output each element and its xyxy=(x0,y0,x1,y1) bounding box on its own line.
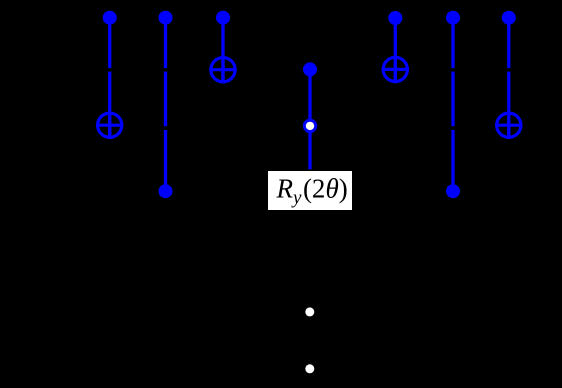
svg-text:Ry(2θ): Ry(2θ) xyxy=(276,174,348,209)
control dot col2 top xyxy=(159,11,173,25)
CNOT target col5 xyxy=(382,56,409,83)
wire col2 middle segment xyxy=(164,72,167,127)
control dot col2 bottom xyxy=(159,184,173,198)
wire col6 middle segment xyxy=(451,72,454,127)
control dot col1 top xyxy=(103,11,117,25)
wire col2 upper segment xyxy=(164,18,167,68)
wire col7 lower segment xyxy=(507,72,510,139)
wire col3 xyxy=(221,18,224,84)
ellipsis dot upper xyxy=(305,307,314,316)
CNOT target col3 xyxy=(209,56,236,83)
control dot col5 top xyxy=(388,11,402,25)
gate box Ry(2theta) xyxy=(268,171,352,210)
wire col1 upper segment xyxy=(108,18,111,68)
wire col4 xyxy=(308,69,311,169)
wire col6 lower segment xyxy=(451,130,454,191)
CNOT target col1 xyxy=(96,112,123,139)
control dot col4 xyxy=(303,62,317,76)
wire col2 lower segment xyxy=(164,130,167,191)
wire col7 upper segment xyxy=(507,18,510,68)
control dot col7 top xyxy=(502,11,516,25)
wire col5 xyxy=(394,18,397,83)
control dot col3 top xyxy=(216,11,230,25)
ellipsis dot lower xyxy=(305,364,314,373)
CNOT target col7 xyxy=(495,112,522,139)
open control (anti-control) col4 xyxy=(304,120,315,131)
control dot col6 top xyxy=(446,11,460,25)
control dot col6 bottom xyxy=(446,184,460,198)
wire col1 lower segment xyxy=(108,72,111,139)
wire col6 upper segment xyxy=(451,18,454,68)
